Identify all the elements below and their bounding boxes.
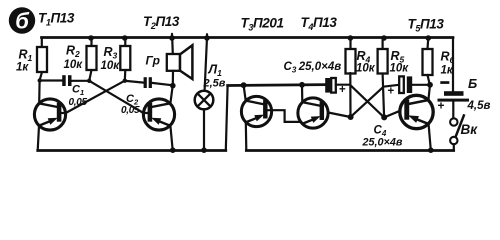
svg-text:25,0×4в: 25,0×4в bbox=[362, 137, 403, 149]
wire C3 right to diagonal A (to T5 base) bbox=[336, 84, 350, 86]
lamp L1 bbox=[205, 38, 207, 91]
node dot lamp top bbox=[204, 35, 210, 41]
resistor R6 bbox=[426, 38, 429, 50]
resistor R4 bbox=[349, 38, 351, 50]
svg-text:2,5в: 2,5в bbox=[203, 78, 226, 90]
node dot T4 collector bbox=[299, 82, 305, 88]
resistor R2 bbox=[90, 38, 92, 47]
transistor T3 bbox=[241, 96, 271, 126]
node N3 bbox=[123, 79, 127, 83]
node dot R4 top bbox=[348, 35, 354, 41]
svg-text:R2: R2 bbox=[66, 44, 80, 60]
svg-text:Гр: Гр bbox=[146, 54, 160, 68]
svg-text:Т1П13: Т1П13 bbox=[38, 11, 75, 28]
bottom rail right section bbox=[246, 149, 453, 152]
wire cross-couple R2/C1 to T2 base bbox=[89, 81, 143, 113]
node dot T2 emitter at rail bbox=[170, 147, 176, 153]
wire T1 emitter to bottom rail bbox=[38, 126, 39, 151]
wire T3 collector up bbox=[244, 85, 246, 101]
svg-text:1к: 1к bbox=[441, 65, 454, 77]
bottom rail left section bbox=[38, 149, 226, 152]
wire T3 emitter down bbox=[245, 122, 248, 151]
svg-text:С1: С1 bbox=[72, 84, 84, 98]
wire cross-couple R3/C2 to T1 base bbox=[66, 81, 125, 113]
node P (T4 base) bbox=[348, 114, 354, 120]
loudspeaker Гр bbox=[171, 38, 174, 55]
svg-text:10к: 10к bbox=[64, 59, 84, 71]
node dot C4 / R6 / T5 collector bbox=[427, 82, 433, 88]
svg-text:10к: 10к bbox=[390, 63, 410, 75]
node dot T5 emitter at rail bbox=[428, 147, 434, 153]
wire R5 down to node Q bbox=[383, 74, 385, 118]
node dot lamp bottom at rail bbox=[201, 147, 207, 153]
svg-text:Л1: Л1 bbox=[208, 63, 223, 79]
svg-text:R3: R3 bbox=[104, 45, 118, 61]
wire T5 base from node Q bbox=[384, 111, 400, 118]
wire T2 emitter down bbox=[170, 126, 172, 151]
wire T3 base to T4 emitter (jog) bbox=[268, 110, 302, 122]
svg-text:0,05: 0,05 bbox=[121, 105, 140, 116]
resistor R5 bbox=[382, 38, 384, 50]
switch Bk bbox=[450, 118, 457, 125]
wire T5 collector up bbox=[428, 85, 430, 100]
svg-text:Т5П13: Т5П13 bbox=[408, 17, 445, 34]
wire tick above speaker node bbox=[171, 34, 173, 38]
svg-text:Вк: Вк bbox=[461, 122, 479, 137]
transistor T4 bbox=[298, 98, 328, 128]
top rail bbox=[42, 36, 454, 39]
node dot T3 collector bbox=[241, 82, 247, 88]
transistor T5 bbox=[400, 95, 433, 128]
svg-text:С325,0×4в: С325,0×4в bbox=[284, 61, 342, 75]
wire diagonal B node P to C4 bbox=[351, 87, 384, 117]
wire R2 bottom bbox=[89, 70, 91, 81]
svg-text:Т3П201: Т3П201 bbox=[241, 16, 284, 33]
svg-text:4,5в: 4,5в bbox=[467, 100, 491, 112]
wire switch to bottom rail bbox=[453, 144, 455, 150]
svg-text:б: б bbox=[15, 9, 30, 34]
svg-text:+: + bbox=[388, 86, 395, 98]
svg-text:1к: 1к bbox=[16, 62, 29, 74]
node dot R3 top bbox=[122, 35, 128, 41]
resistor R3 bbox=[124, 38, 126, 47]
node Q (T5 base) bbox=[381, 114, 387, 120]
transistor T1 bbox=[34, 99, 65, 130]
right edge wire rail to battery bbox=[452, 38, 454, 92]
wire battery to switch bbox=[452, 102, 454, 119]
node C1-R1 junction bbox=[38, 78, 42, 82]
node dot R6 top bbox=[426, 35, 432, 41]
node dot R5 top bbox=[381, 35, 387, 41]
wire T2 collector up bbox=[170, 86, 172, 104]
node dot speaker top bbox=[169, 35, 175, 41]
wire R3 bottom bbox=[124, 70, 127, 81]
svg-text:Т4П13: Т4П13 bbox=[301, 15, 338, 32]
node dot R2 top bbox=[88, 35, 94, 41]
capacitor C1 bbox=[40, 79, 63, 81]
svg-text:+: + bbox=[339, 84, 346, 96]
wire R6 bottom to node bbox=[428, 75, 430, 85]
svg-text:10к: 10к bbox=[356, 63, 376, 75]
wire T4 base to node P bbox=[328, 113, 350, 118]
capacitor C3 bbox=[325, 78, 330, 93]
svg-text:Б: Б bbox=[468, 76, 477, 91]
battery Б 4,5в bbox=[444, 91, 464, 96]
svg-text:+: + bbox=[438, 99, 445, 113]
wire T4 collector up bbox=[301, 85, 303, 103]
collector bus wire bbox=[228, 83, 326, 87]
node dot T2 collector / C2 / speaker bbox=[170, 83, 176, 89]
wire left rail up to collector bus bbox=[226, 86, 228, 151]
resistor R1 bbox=[41, 38, 43, 48]
transistor T2 bbox=[143, 99, 174, 130]
svg-text:10к: 10к bbox=[101, 60, 121, 72]
wire T5 emitter down bbox=[429, 124, 431, 150]
wire R4 down to node P bbox=[349, 73, 351, 117]
svg-text:Т2П13: Т2П13 bbox=[143, 14, 180, 31]
capacitor C2 bbox=[125, 81, 144, 83]
node N2 bbox=[87, 79, 91, 83]
wire R1 bottom to T1 collector bbox=[39, 72, 42, 104]
wire tick above lamp node bbox=[206, 34, 208, 37]
figure badge б bbox=[9, 7, 35, 33]
